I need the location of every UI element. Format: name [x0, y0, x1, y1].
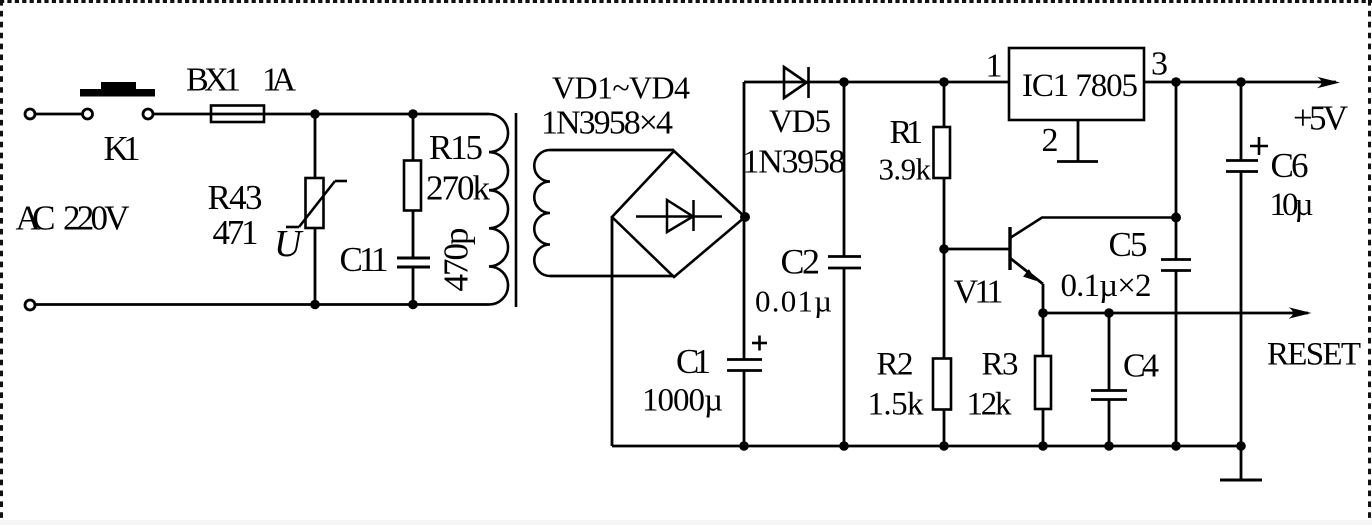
svg-text:470p: 470p	[437, 228, 476, 292]
svg-text:U: U	[274, 223, 304, 265]
svg-text:VD5: VD5	[769, 104, 831, 140]
svg-text:R1: R1	[890, 114, 924, 151]
svg-text:0.01µ: 0.01µ	[755, 284, 832, 319]
svg-text:R3: R3	[982, 347, 1019, 383]
svg-text:C6: C6	[1271, 146, 1309, 185]
svg-text:C2: C2	[781, 242, 821, 282]
svg-text:R15: R15	[429, 128, 483, 167]
svg-text:220V: 220V	[63, 199, 130, 238]
svg-text:V11: V11	[954, 274, 1004, 311]
svg-text:AC: AC	[16, 199, 56, 238]
svg-text:C5: C5	[1109, 225, 1148, 264]
svg-text:471: 471	[213, 213, 259, 252]
svg-text:BX1: BX1	[186, 62, 241, 99]
svg-text:C1: C1	[676, 342, 711, 381]
svg-text:R2: R2	[877, 347, 914, 383]
svg-text:RESET: RESET	[1267, 337, 1361, 373]
svg-text:2: 2	[1042, 122, 1059, 159]
svg-text:1A: 1A	[262, 62, 296, 99]
svg-text:10µ: 10µ	[1270, 187, 1314, 223]
svg-text:1.5k: 1.5k	[868, 387, 925, 423]
svg-text:3: 3	[1151, 46, 1168, 83]
svg-text:VD1~VD4: VD1~VD4	[552, 70, 690, 106]
svg-text:1: 1	[986, 48, 1003, 85]
svg-text:3.9k: 3.9k	[879, 152, 932, 187]
svg-text:0.1µ×2: 0.1µ×2	[1061, 268, 1152, 304]
svg-text:+5V: +5V	[1293, 99, 1348, 138]
svg-text:IC1 7805: IC1 7805	[1022, 68, 1138, 104]
svg-text:C4: C4	[1123, 348, 1159, 385]
svg-text:270k: 270k	[426, 169, 491, 208]
svg-text:C11: C11	[340, 240, 389, 279]
svg-text:R43: R43	[208, 178, 263, 217]
svg-text:K1: K1	[104, 129, 141, 168]
svg-text:1N3958×4: 1N3958×4	[541, 105, 673, 142]
svg-text:1000µ: 1000µ	[642, 383, 723, 419]
svg-text:12k: 12k	[967, 387, 1013, 423]
svg-text:1N3958: 1N3958	[743, 144, 846, 181]
